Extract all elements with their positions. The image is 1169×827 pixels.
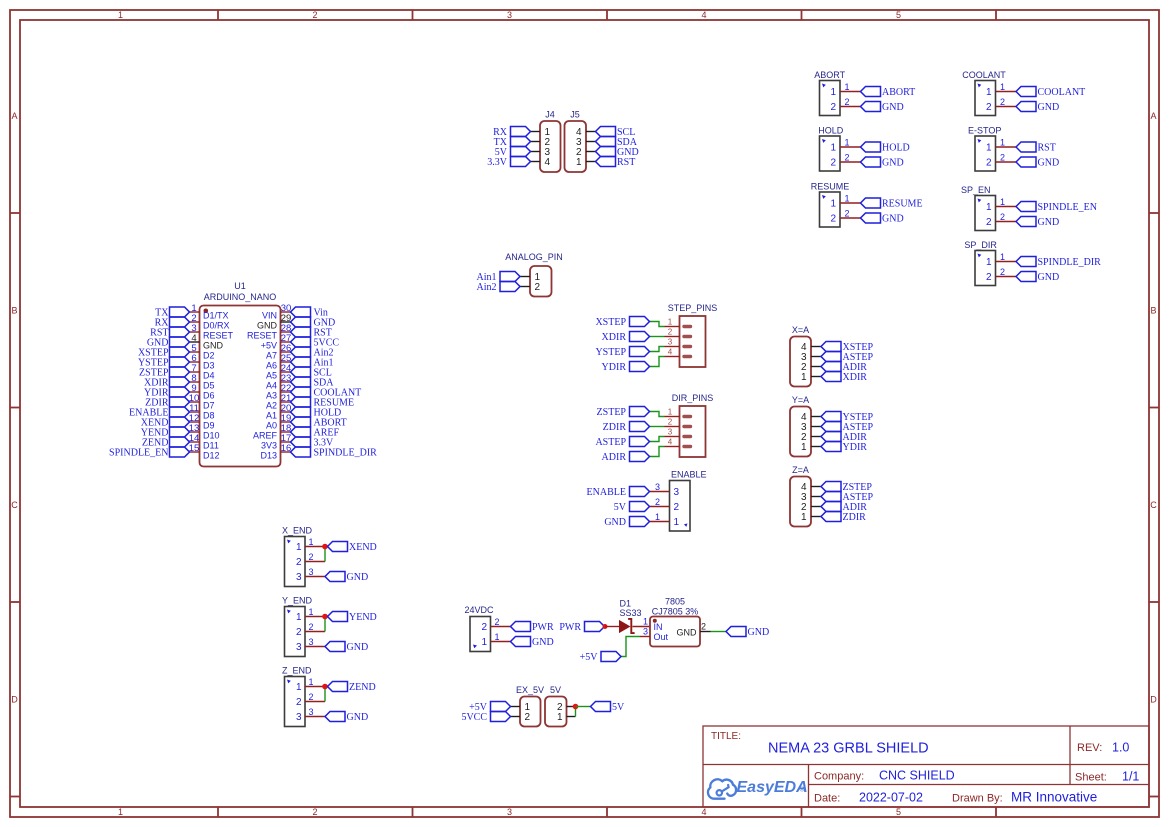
- svg-text:CJ7805 3%: CJ7805 3%: [652, 607, 699, 617]
- svg-text:1.0: 1.0: [1112, 741, 1129, 755]
- svg-text:Sheet:: Sheet:: [1075, 772, 1107, 784]
- svg-text:GND: GND: [347, 572, 369, 583]
- net flag ADIR: [602, 452, 650, 464]
- svg-text:ABORT: ABORT: [814, 70, 845, 80]
- svg-text:A4: A4: [266, 381, 277, 391]
- connector DIR_PINS: [665, 393, 714, 457]
- svg-text:2: 2: [525, 712, 531, 723]
- svg-text:SPINDLE_DIR: SPINDLE_DIR: [1038, 257, 1102, 268]
- net flag GND: [1016, 217, 1059, 229]
- junction: [322, 614, 328, 620]
- svg-text:D9: D9: [203, 421, 215, 431]
- svg-text:1: 1: [674, 517, 680, 528]
- net flag 5V: [495, 147, 531, 159]
- svg-text:ZDIR: ZDIR: [603, 422, 627, 433]
- net flag 3.3V: [487, 157, 530, 169]
- svg-text:ZDIR: ZDIR: [843, 512, 867, 523]
- net flag SPINDLE_EN (U1 left pin 15): [109, 447, 189, 459]
- svg-text:1: 1: [1000, 252, 1005, 262]
- net flag RESUME: [861, 198, 923, 210]
- svg-text:+5V: +5V: [261, 341, 277, 351]
- svg-text:Company:: Company:: [814, 771, 864, 783]
- svg-text:2: 2: [844, 153, 849, 163]
- svg-text:EX_5V: EX_5V: [516, 685, 544, 695]
- svg-text:SPINDLE_DIR: SPINDLE_DIR: [314, 448, 378, 459]
- svg-text:1: 1: [1000, 197, 1005, 207]
- wire: [650, 426, 665, 428]
- wire: [650, 336, 665, 338]
- svg-text:A3: A3: [266, 391, 277, 401]
- connector ENABLE: [650, 470, 707, 532]
- net flag YEND (U1 left pin 13): [141, 427, 190, 439]
- svg-text:A2: A2: [266, 401, 277, 411]
- net flag 5VCC (U1 right pin 27): [291, 337, 340, 349]
- svg-text:5: 5: [896, 807, 901, 817]
- svg-text:RESET: RESET: [247, 331, 278, 341]
- svg-text:2: 2: [308, 692, 313, 702]
- svg-text:RESET: RESET: [203, 331, 234, 341]
- svg-text:Z_END: Z_END: [282, 666, 312, 676]
- svg-text:3: 3: [507, 807, 512, 817]
- svg-text:D: D: [11, 695, 18, 705]
- svg-text:®: ®: [800, 786, 805, 794]
- net flag XSTEP (U1 left pin 5): [138, 347, 190, 359]
- wire: [324, 617, 326, 632]
- svg-text:1: 1: [986, 143, 992, 154]
- svg-text:GND: GND: [882, 158, 904, 169]
- svg-text:SPINDLE_EN: SPINDLE_EN: [1038, 202, 1097, 213]
- wire: [324, 687, 326, 702]
- net flag PWR (source): [559, 622, 604, 634]
- net flag SPINDLE_EN: [1016, 202, 1097, 214]
- svg-text:24VDC: 24VDC: [465, 605, 495, 615]
- svg-text:B: B: [1150, 306, 1156, 316]
- svg-text:XEND: XEND: [349, 542, 377, 553]
- svg-text:1: 1: [986, 87, 992, 98]
- svg-text:2: 2: [296, 697, 302, 708]
- svg-text:1: 1: [308, 677, 313, 687]
- svg-text:ANALOG_PIN: ANALOG_PIN: [505, 252, 563, 262]
- svg-text:1: 1: [308, 537, 313, 547]
- net flag GND (U1 right pin 29): [291, 317, 336, 329]
- net flag ASTEP: [821, 352, 874, 364]
- svg-text:GND: GND: [1038, 102, 1060, 113]
- svg-text:4: 4: [668, 347, 673, 356]
- svg-text:B: B: [11, 306, 17, 316]
- svg-text:1: 1: [1000, 138, 1005, 148]
- svg-text:C: C: [11, 500, 18, 510]
- svg-text:J5: J5: [570, 110, 580, 120]
- title block frame: [703, 726, 1149, 807]
- net flag XSTEP: [595, 317, 649, 329]
- svg-text:2022-07-02: 2022-07-02: [859, 791, 923, 805]
- connector STEP_PINS: [665, 303, 718, 367]
- svg-text:YEND: YEND: [349, 612, 377, 623]
- net flag ZEND: [328, 682, 376, 694]
- svg-text:J4: J4: [545, 110, 555, 120]
- net flag 5V: [614, 502, 650, 514]
- svg-text:ARDUINO_NANO: ARDUINO_NANO: [204, 292, 277, 302]
- net flag ADIR: [821, 362, 867, 374]
- svg-text:AREF: AREF: [253, 431, 278, 441]
- svg-text:2: 2: [844, 97, 849, 107]
- net flag GND: [861, 157, 904, 169]
- svg-text:4: 4: [668, 437, 673, 446]
- svg-text:1: 1: [830, 199, 836, 210]
- net flag HOLD (U1 right pin 20): [291, 407, 342, 419]
- svg-text:REV:: REV:: [1077, 742, 1102, 754]
- svg-text:ADIR: ADIR: [602, 452, 627, 463]
- net flag RST: [1016, 142, 1056, 154]
- net flag YDIR: [602, 362, 650, 374]
- svg-text:ZEND: ZEND: [349, 682, 376, 693]
- svg-text:1: 1: [643, 616, 648, 626]
- wire: [650, 447, 665, 457]
- connector Y=A: [790, 395, 821, 457]
- net flag RST (U1 right pin 28): [291, 327, 332, 339]
- svg-text:2: 2: [1000, 212, 1005, 222]
- connector SP_EN: [961, 185, 1016, 231]
- wire pin1 to junction: [575, 707, 577, 717]
- svg-text:CNC SHIELD: CNC SHIELD: [879, 769, 955, 783]
- svg-text:YSTEP: YSTEP: [595, 347, 626, 358]
- title block texts: [711, 731, 1139, 805]
- svg-text:1: 1: [118, 807, 123, 817]
- connector SP_DIR: [964, 240, 1016, 286]
- svg-text:PWR: PWR: [559, 622, 581, 633]
- connector COOLANT: [962, 70, 1016, 116]
- net flag Vin (U1 right pin 30): [291, 307, 328, 319]
- svg-text:HOLD: HOLD: [818, 126, 844, 136]
- svg-text:A7: A7: [266, 351, 277, 361]
- svg-text:A: A: [1150, 111, 1156, 121]
- connector X=A: [790, 325, 821, 387]
- svg-text:DIR_PINS: DIR_PINS: [672, 393, 714, 403]
- svg-text:SP_DIR: SP_DIR: [964, 240, 997, 250]
- net flag +5V (EX_5V): [469, 702, 510, 714]
- svg-text:2: 2: [986, 272, 992, 283]
- svg-text:A1: A1: [266, 411, 277, 421]
- net flag RST: [596, 157, 636, 169]
- svg-text:2: 2: [830, 158, 836, 169]
- svg-text:1: 1: [296, 612, 302, 623]
- svg-text:1: 1: [296, 682, 302, 693]
- svg-text:RST: RST: [617, 157, 635, 168]
- svg-text:3: 3: [655, 482, 660, 492]
- svg-text:1: 1: [296, 542, 302, 553]
- svg-text:3.3V: 3.3V: [487, 157, 508, 168]
- svg-text:D3: D3: [203, 361, 215, 371]
- svg-text:1: 1: [481, 637, 487, 648]
- svg-text:D5: D5: [203, 381, 215, 391]
- svg-text:3V3: 3V3: [261, 441, 277, 451]
- svg-text:3: 3: [296, 642, 302, 653]
- wire: [650, 347, 665, 352]
- svg-text:2: 2: [312, 10, 317, 20]
- net flag ZDIR: [603, 422, 650, 434]
- net flag YSTEP: [821, 412, 874, 424]
- net flag COOLANT (U1 right pin 22): [291, 387, 362, 399]
- wire D1 to U2.IN: [633, 626, 651, 628]
- svg-text:RST: RST: [1038, 143, 1056, 154]
- svg-text:D1: D1: [620, 599, 632, 609]
- svg-text:GND: GND: [882, 102, 904, 113]
- svg-text:Ain2: Ain2: [477, 282, 497, 293]
- svg-text:2: 2: [668, 417, 673, 426]
- svg-text:XDIR: XDIR: [602, 332, 627, 343]
- svg-text:5VCC: 5VCC: [461, 712, 487, 723]
- svg-text:SPINDLE_EN: SPINDLE_EN: [109, 448, 168, 459]
- svg-text:XDIR: XDIR: [843, 372, 868, 383]
- net flag ENABLE: [587, 487, 650, 499]
- svg-text:2: 2: [296, 557, 302, 568]
- svg-text:1: 1: [801, 372, 807, 383]
- svg-text:D6: D6: [203, 391, 215, 401]
- svg-text:+5V: +5V: [580, 652, 599, 663]
- net flag XDIR (U1 left pin 8): [144, 377, 189, 389]
- svg-text:E-STOP: E-STOP: [968, 126, 1001, 136]
- svg-text:D10: D10: [203, 431, 220, 441]
- svg-text:3: 3: [668, 427, 673, 436]
- svg-text:ENABLE: ENABLE: [587, 487, 626, 498]
- svg-text:ASTEP: ASTEP: [595, 437, 626, 448]
- svg-text:1: 1: [557, 712, 563, 723]
- svg-text:D13: D13: [260, 451, 277, 461]
- svg-text:2: 2: [844, 209, 849, 219]
- svg-text:D4: D4: [203, 371, 215, 381]
- svg-text:4: 4: [545, 157, 551, 168]
- svg-text:ABORT: ABORT: [882, 87, 915, 98]
- svg-text:COOLANT: COOLANT: [962, 70, 1006, 80]
- svg-text:A5: A5: [266, 371, 277, 381]
- net flag 5V (output): [591, 702, 626, 714]
- svg-text:EasyEDA: EasyEDA: [737, 779, 808, 796]
- svg-text:1: 1: [308, 607, 313, 617]
- net flag ABORT (U1 right pin 19): [291, 417, 347, 429]
- svg-text:NEMA 23 GRBL SHIELD: NEMA 23 GRBL SHIELD: [768, 741, 929, 757]
- connector ANALOG_PIN: [505, 252, 563, 297]
- svg-text:XSTEP: XSTEP: [595, 317, 626, 328]
- connector ABORT: [814, 70, 860, 116]
- wire: [650, 412, 665, 417]
- svg-text:1: 1: [668, 317, 673, 326]
- net flag RESUME (U1 right pin 21): [291, 397, 355, 409]
- svg-text:VIN: VIN: [262, 311, 277, 321]
- svg-text:Date:: Date:: [814, 793, 840, 805]
- junction: [322, 544, 328, 550]
- net flag SDA (U1 right pin 23): [291, 377, 335, 389]
- svg-text:TITLE:: TITLE:: [711, 731, 741, 742]
- svg-text:X=A: X=A: [792, 325, 809, 335]
- net flag ASTEP: [595, 437, 649, 449]
- svg-text:1: 1: [494, 632, 499, 642]
- svg-text:Drawn By:: Drawn By:: [952, 793, 1003, 805]
- net flag ENABLE (U1 left pin 11): [129, 407, 189, 419]
- svg-text:1: 1: [668, 407, 673, 416]
- net flag ABORT: [861, 87, 916, 99]
- svg-text:GND: GND: [882, 214, 904, 225]
- svg-text:D8: D8: [203, 411, 215, 421]
- svg-text:MR Innovative: MR Innovative: [1011, 790, 1097, 805]
- svg-text:YDIR: YDIR: [602, 362, 627, 373]
- net flag AREF (U1 right pin 18): [291, 427, 340, 439]
- svg-text:GND: GND: [748, 627, 770, 638]
- svg-text:15: 15: [189, 443, 200, 454]
- svg-text:2: 2: [655, 497, 660, 507]
- svg-text:3: 3: [308, 637, 313, 647]
- svg-text:RESUME: RESUME: [882, 199, 923, 210]
- net flag +5V (regulator): [580, 652, 621, 664]
- net flag TX: [494, 137, 531, 149]
- svg-text:2: 2: [312, 807, 317, 817]
- svg-text:2: 2: [1000, 97, 1005, 107]
- net flag ADIR: [821, 502, 867, 514]
- svg-text:2: 2: [1000, 267, 1005, 277]
- net flag XEND: [328, 542, 377, 554]
- net flag 5VCC (EX_5V): [461, 712, 510, 724]
- svg-text:Y=A: Y=A: [792, 395, 809, 405]
- net flag RST (U1 left pin 3): [150, 327, 189, 339]
- svg-text:2: 2: [535, 282, 541, 293]
- net flag SDA: [596, 137, 638, 149]
- svg-text:2: 2: [674, 502, 680, 513]
- net flag XEND (U1 left pin 12): [141, 417, 190, 429]
- svg-text:U1: U1: [234, 281, 246, 291]
- svg-text:PWR: PWR: [532, 622, 554, 633]
- net flag XSTEP: [821, 342, 874, 354]
- net flag ZDIR (U1 left pin 10): [145, 397, 189, 409]
- svg-text:A6: A6: [266, 361, 277, 371]
- net flag RX: [493, 127, 530, 139]
- net flag ZSTEP: [597, 407, 650, 419]
- wire: [650, 357, 665, 367]
- svg-text:X_END: X_END: [282, 526, 313, 536]
- net flag SPINDLE_DIR: [1016, 257, 1101, 269]
- net flag YSTEP: [595, 347, 649, 359]
- svg-text:2: 2: [830, 214, 836, 225]
- svg-text:A: A: [11, 111, 17, 121]
- svg-text:Z=A: Z=A: [792, 465, 809, 475]
- net flag RX (U1 left pin 2): [155, 317, 190, 329]
- net flag GND: [861, 213, 904, 225]
- net flag GND: [861, 102, 904, 114]
- net flag GND: [604, 517, 649, 529]
- svg-text:3: 3: [308, 567, 313, 577]
- net flag YEND: [328, 612, 377, 624]
- net flag YDIR (U1 left pin 9): [144, 387, 189, 399]
- svg-text:2: 2: [481, 622, 487, 633]
- svg-text:2: 2: [1000, 153, 1005, 163]
- net flag ADIR: [821, 432, 867, 444]
- svg-text:D12: D12: [203, 451, 220, 461]
- svg-text:ENABLE: ENABLE: [671, 470, 707, 480]
- connector Y_END: [282, 596, 325, 657]
- connector J4: [531, 110, 561, 173]
- svg-text:GND: GND: [1038, 158, 1060, 169]
- svg-text:5V: 5V: [612, 702, 625, 713]
- svg-text:3: 3: [308, 707, 313, 717]
- svg-text:3: 3: [296, 712, 302, 723]
- junction: [322, 684, 328, 690]
- net flag GND: [596, 147, 639, 159]
- svg-text:IN: IN: [654, 622, 663, 632]
- svg-text:GND: GND: [532, 637, 554, 648]
- svg-text:GND: GND: [677, 627, 698, 637]
- frame row labels: [11, 111, 1157, 705]
- svg-text:D0/RX: D0/RX: [203, 321, 230, 331]
- svg-text:5V: 5V: [550, 685, 561, 695]
- svg-text:C: C: [1150, 500, 1157, 510]
- svg-text:4: 4: [701, 10, 706, 20]
- connector J5: [565, 110, 596, 173]
- svg-text:D2: D2: [203, 351, 215, 361]
- connector X_END: [282, 526, 325, 587]
- connector EX_5V: [511, 685, 545, 727]
- svg-text:3: 3: [668, 337, 673, 346]
- net flag 3.3V (U1 right pin 17): [291, 437, 335, 449]
- svg-text:Out: Out: [654, 632, 669, 642]
- net flag ZEND (U1 left pin 14): [142, 437, 190, 449]
- net flag GND: [1016, 157, 1059, 169]
- svg-text:2: 2: [308, 622, 313, 632]
- svg-text:1/1: 1/1: [1122, 770, 1139, 784]
- svg-text:2: 2: [701, 621, 706, 631]
- svg-text:GND: GND: [604, 517, 626, 528]
- svg-text:2: 2: [830, 102, 836, 113]
- connector 24VDC: [465, 605, 511, 652]
- svg-text:YDIR: YDIR: [843, 442, 868, 453]
- svg-text:2: 2: [668, 327, 673, 336]
- net flag GND: [1016, 272, 1059, 284]
- svg-text:1: 1: [986, 202, 992, 213]
- wire junction to 5V flag: [576, 706, 591, 708]
- svg-text:3: 3: [296, 572, 302, 583]
- svg-text:2: 2: [494, 617, 499, 627]
- net flag XDIR: [821, 372, 867, 384]
- svg-text:COOLANT: COOLANT: [1038, 87, 1086, 98]
- svg-text:GND: GND: [1038, 217, 1060, 228]
- svg-text:D11: D11: [203, 441, 219, 451]
- net flag XDIR: [602, 332, 650, 344]
- connector Z=A: [790, 465, 821, 527]
- svg-text:2: 2: [308, 552, 313, 562]
- EasyEDA logo: [708, 779, 808, 799]
- net flag Ain1 (U1 right pin 25): [291, 357, 334, 369]
- net flag Ain2 (U1 right pin 26): [291, 347, 334, 359]
- net flag COOLANT: [1016, 87, 1085, 99]
- connector Z_END: [282, 666, 325, 727]
- wire: [324, 547, 326, 562]
- junction (5V node): [573, 704, 579, 710]
- svg-text:Y_END: Y_END: [282, 596, 313, 606]
- svg-text:SP_EN: SP_EN: [961, 185, 991, 195]
- svg-text:1: 1: [844, 82, 849, 92]
- svg-text:D: D: [1150, 695, 1157, 705]
- svg-text:16: 16: [281, 443, 292, 454]
- wire: [650, 322, 665, 327]
- svg-text:GND: GND: [347, 712, 369, 723]
- regulator 7805 CJ7805: [640, 597, 711, 647]
- svg-text:GND: GND: [257, 321, 278, 331]
- net flag PWR (24VDC): [511, 622, 555, 634]
- net flag Ain1: [477, 272, 521, 284]
- connector 5V: [545, 685, 576, 727]
- svg-text:1: 1: [801, 442, 807, 453]
- net flag SCL (U1 right pin 24): [291, 367, 332, 379]
- svg-text:D7: D7: [203, 401, 215, 411]
- op-amp U1 ARDUINO_NANO body: [189, 281, 292, 467]
- svg-text:1: 1: [1000, 82, 1005, 92]
